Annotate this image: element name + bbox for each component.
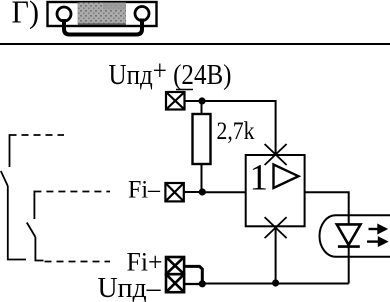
terminal X4 Uпд- — [166, 274, 184, 292]
node A junction dot — [198, 97, 205, 104]
svg-text:Fi–: Fi– — [128, 177, 160, 204]
light emission arrow upper — [369, 226, 386, 233]
node C junction dot — [272, 279, 279, 286]
switch S1 upper lower wire — [8, 186, 26, 260]
wire node A to top-right corner — [202, 101, 276, 154]
wire X1 to node A — [185, 100, 203, 102]
LED D1 stadium outline — [319, 215, 390, 256]
dashed line bottom Fi+ — [45, 261, 111, 263]
jumper wire X3 to node D — [184, 266, 202, 283]
bottom galvanic isolation cross — [265, 217, 287, 238]
terminal screw left — [57, 7, 71, 21]
wire optocoupler bottom to node C — [275, 226, 277, 283]
optocoupler U1 box — [246, 155, 305, 226]
LED D1 triangle — [337, 224, 361, 245]
svg-text:2,7k: 2,7k — [217, 118, 255, 145]
wire optocoupler output to LED — [305, 192, 349, 283]
wire X2 to node B — [184, 191, 203, 193]
amplifier triangle — [274, 165, 299, 189]
scan artifact underline — [176, 89, 193, 91]
terminal block body — [48, 2, 157, 26]
switch S1 lower fixed wire — [33, 191, 35, 219]
terminal X1 Uпд+ — [166, 92, 185, 110]
LED D1 cathode bar — [338, 245, 360, 248]
switch S1 lower blade — [27, 223, 36, 238]
dashed line top (to switch) — [10, 134, 65, 136]
wire resistor to node B — [201, 164, 203, 192]
terminal screw right — [135, 7, 149, 21]
bottom rail wire — [202, 283, 348, 285]
terminal X2 Fi- — [165, 183, 183, 201]
svg-text:Uпд–: Uпд– — [98, 272, 161, 302]
terminal X3 Fi+ — [166, 257, 184, 274]
svg-text:Г): Г) — [12, 0, 40, 30]
separator rule — [0, 43, 390, 45]
top galvanic isolation cross — [265, 144, 287, 165]
node D junction dot — [199, 280, 206, 287]
dashed line middle Fi- — [34, 191, 110, 193]
wire node A to resistor — [201, 101, 203, 114]
resistor R1 — [193, 114, 211, 164]
terminal block grey insert — [78, 3, 127, 26]
switch S1 lower bottom wire — [35, 237, 43, 261]
switch S1 upper fixed wire — [9, 134, 11, 167]
switch S1 upper blade — [1, 171, 8, 186]
jumper wire — [64, 19, 142, 35]
wire node B to optocoupler — [202, 191, 245, 193]
light emission arrow lower — [367, 238, 386, 245]
node B junction dot — [199, 188, 206, 195]
svg-text:Uпд+ (24В): Uпд+ (24В) — [109, 55, 232, 91]
wire X4 to node D — [184, 283, 202, 285]
insert shadow lines — [78, 23, 126, 25]
